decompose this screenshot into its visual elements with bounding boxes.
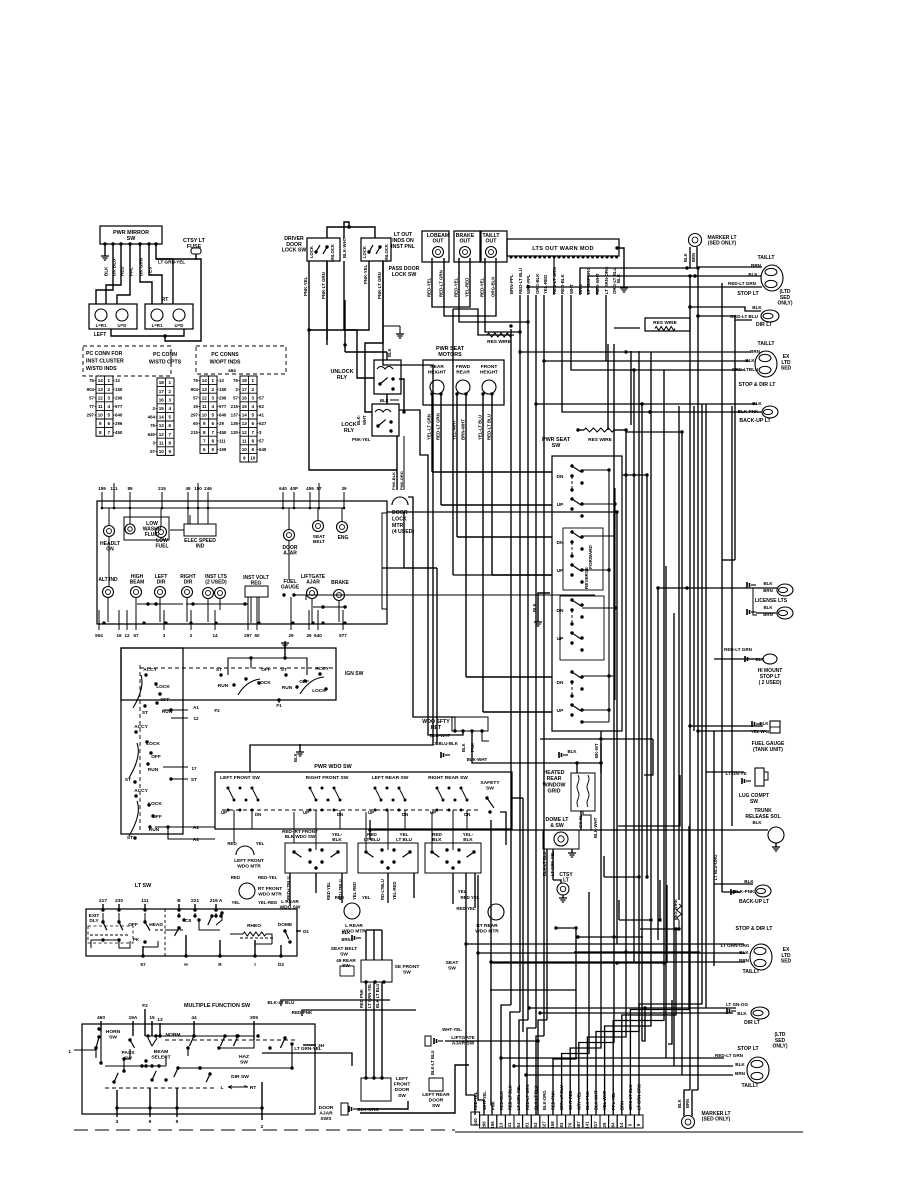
svg-text:296: 296: [115, 421, 123, 426]
svg-text:5: 5: [168, 415, 171, 420]
seat motor 1: [430, 380, 444, 394]
ign contacts 2: [219, 673, 222, 676]
license bracket: [753, 588, 757, 615]
svg-text:DK GRN: DK GRN: [139, 257, 144, 276]
svg-text:6: 6: [107, 421, 110, 426]
svg-text:SW: SW: [109, 1034, 117, 1040]
backup lamp: [762, 406, 778, 418]
sfty conn arrow: [441, 752, 444, 758]
svg-text:8: 8: [251, 438, 254, 443]
svg-text:640: 640: [115, 413, 123, 418]
bottom connector cell 627: [540, 1115, 549, 1128]
svg-text:5: 5: [107, 413, 110, 418]
svg-text:PNK-LT GRN: PNK-LT GRN: [321, 272, 326, 299]
cluster reg wires: [250, 597, 252, 623]
svg-text:10: 10: [242, 447, 248, 452]
weave horizontal 8: [556, 927, 576, 929]
indicator wire YEL-RED: [469, 258, 471, 300]
svg-text:PNK-YEL: PNK-YEL: [303, 276, 308, 296]
svg-text:AJAR: AJAR: [319, 1111, 333, 1117]
ctsy ground: [559, 898, 567, 902]
marker lamp top: [689, 234, 702, 247]
pass lock contact a: [367, 250, 370, 253]
svg-text:INST CLUSTER: INST CLUSTER: [86, 358, 124, 364]
wire BLK to ground: [104, 244, 106, 256]
svg-text:297: 297: [87, 413, 95, 418]
svg-text:DOOR: DOOR: [319, 1105, 334, 1111]
svg-text:3: 3: [251, 395, 254, 400]
seat motor wire YEL-LT BLU: [482, 394, 484, 712]
indicator lamp BRAKE: [460, 247, 471, 258]
himount wire: [682, 651, 724, 653]
svg-text:WDO MTR: WDO MTR: [475, 928, 499, 934]
weave vertical 647: [646, 475, 648, 877]
svg-text:4: 4: [168, 406, 171, 411]
svg-text:RIGHT REAR SW: RIGHT REAR SW: [428, 775, 468, 781]
svg-text:12: 12: [115, 378, 120, 383]
indicator box BRAKE: [454, 231, 481, 262]
left front door pins: [364, 1076, 367, 1079]
svg-text:TAILLT: TAILLT: [757, 255, 775, 261]
pwr wdo ground: [296, 752, 304, 756]
svg-text:SEAT: SEAT: [446, 960, 459, 966]
himount lamp: [763, 654, 777, 664]
svg-text:BLK: BLK: [104, 266, 109, 276]
fuel gauge conn: [752, 721, 755, 727]
wire pass lock down: [365, 261, 383, 412]
central to strip 3: [519, 1020, 528, 1115]
rt front wdo mtr: [239, 883, 255, 899]
svg-text:1: 1: [251, 378, 254, 383]
instrument cluster inner right edge: [382, 513, 387, 609]
svg-text:29: 29: [219, 421, 224, 426]
tail lamp 4: [747, 1057, 769, 1083]
wire relay top: [344, 300, 346, 352]
wire indicator drop 457: [452, 309, 454, 575]
svg-text:WHT: WHT: [569, 284, 574, 294]
svg-text:57: 57: [140, 962, 146, 968]
wdo drop 1: [365, 982, 367, 1078]
svg-text:RED YEL: RED YEL: [461, 895, 480, 900]
wdo dashed line: [222, 809, 478, 811]
brake lamp: [334, 590, 345, 601]
svg-text:904: 904: [95, 633, 103, 638]
svg-text:YEL: YEL: [231, 900, 240, 905]
right bus wire 0: [616, 512, 618, 944]
svg-text:W/STD INDS: W/STD INDS: [86, 366, 117, 372]
svg-text:13: 13: [242, 421, 248, 426]
bottom connector cell 83: [557, 1115, 566, 1128]
wire indicator elbow 2: [444, 300, 496, 316]
svg-text:BRN: BRN: [691, 253, 696, 262]
svg-text:135: 135: [231, 421, 239, 426]
svg-text:9: 9: [203, 421, 206, 426]
seat motor wire YEL-WHT: [456, 394, 458, 537]
svg-text:L=R1: L=R1: [96, 323, 107, 328]
svg-text:RED-LT GRN: RED-LT GRN: [436, 413, 441, 440]
pin 7 of mirror switch: [154, 242, 157, 245]
svg-text:RHEO: RHEO: [247, 923, 261, 929]
svg-text:NORM: NORM: [166, 1032, 181, 1038]
svg-text:HEIGHT: HEIGHT: [480, 369, 498, 375]
svg-text:DOOR: DOOR: [395, 1087, 410, 1093]
weave horizontal 5: [604, 876, 639, 878]
svg-text:9: 9: [211, 447, 214, 452]
svg-text:BLK: BLK: [763, 605, 773, 610]
cluster right tie 2: [382, 567, 437, 569]
svg-text:W/OPT INDS: W/OPT INDS: [210, 359, 241, 365]
indicator box LOBEAM: [422, 231, 449, 262]
svg-text:LT BLU-ORG: LT BLU-ORG: [586, 267, 591, 294]
svg-text:977: 977: [115, 404, 123, 409]
svg-text:10: 10: [202, 413, 208, 418]
svg-text:BRN: BRN: [735, 1071, 746, 1076]
svg-text:83: 83: [559, 1122, 564, 1127]
svg-text:R: R: [218, 962, 222, 968]
svg-text:UP: UP: [430, 810, 436, 815]
bottom connector cell 14: [617, 1115, 626, 1128]
weave horizontal 1: [576, 936, 643, 938]
pc conn inst cluster dashed box: [83, 346, 171, 376]
svg-text:2: 2: [107, 387, 110, 392]
svg-text:459: 459: [306, 486, 314, 491]
svg-text:BLK: BLK: [677, 1099, 682, 1108]
mf sw box: [82, 1024, 315, 1114]
svg-text:IGN SW: IGN SW: [345, 671, 364, 677]
wire PNK-YEL 2 down: [368, 261, 370, 285]
module pin dot 10: [553, 256, 556, 259]
svg-text:246: 246: [204, 486, 212, 491]
svg-text:7: 7: [251, 430, 254, 435]
wdo cluster drops: [233, 810, 235, 843]
weave horizontal 2: [574, 951, 700, 953]
bottom connector cell 53: [531, 1115, 540, 1128]
svg-text:17: 17: [191, 766, 197, 771]
svg-text:ACCY: ACCY: [134, 724, 148, 730]
weave horizontal 6: [619, 919, 651, 921]
l rear wdo mtr: [344, 903, 360, 919]
svg-text:HAZ: HAZ: [239, 1054, 249, 1060]
svg-text:OFF: OFF: [261, 667, 271, 673]
pin 3 of mirror switch: [119, 242, 122, 245]
svg-text:BLK: BLK: [342, 930, 351, 935]
svg-text:464: 464: [228, 368, 236, 373]
svg-text:158: 158: [550, 1121, 555, 1129]
svg-text:SW: SW: [432, 1103, 440, 1109]
svg-text:SAFETY: SAFETY: [480, 780, 500, 786]
wire mirror 3: [117, 244, 130, 304]
module pin dot 2: [514, 256, 517, 259]
svg-text:LEFT: LEFT: [396, 1076, 408, 1082]
ground seat sw: [534, 622, 542, 626]
svg-text:111: 111: [219, 438, 226, 443]
res wire connect: [690, 328, 722, 341]
svg-text:W/STD OPTS: W/STD OPTS: [149, 359, 182, 365]
fan wire 18: [630, 826, 689, 1115]
svg-text:150: 150: [115, 387, 123, 392]
svg-text:2: 2: [168, 389, 171, 394]
bottom connector cell 158: [548, 1115, 557, 1128]
svg-text:9: 9: [99, 421, 102, 426]
module pin dot 18: [591, 256, 594, 259]
svg-text:EXIT: EXIT: [89, 913, 100, 919]
sub contacts 2: [364, 850, 367, 853]
cluster liftgate brake tie: [313, 606, 347, 608]
svg-text:LT SW: LT SW: [135, 883, 152, 889]
svg-text:(SED ONLY): (SED ONLY): [702, 1117, 731, 1123]
dome lamp: [554, 832, 568, 846]
tail lamp 3: [750, 944, 772, 970]
svg-text:6: 6: [203, 447, 206, 452]
lt sw pin drop wires: [102, 913, 104, 922]
res wire zigzag top right: [655, 327, 675, 331]
svg-text:4: 4: [211, 404, 214, 409]
svg-text:DN: DN: [557, 474, 564, 480]
rheo zigzag: [243, 932, 266, 936]
svg-text:BRN-PPL: BRN-PPL: [509, 274, 514, 294]
svg-text:LOCK: LOCK: [392, 516, 407, 522]
wire PNK-LT GRN down: [326, 261, 328, 340]
svg-text:RED-LT GRN: RED-LT GRN: [439, 270, 444, 297]
lt sw contacts: [101, 920, 104, 923]
wdo motor drops: [289, 873, 291, 906]
svg-text:YEL-RED: YEL-RED: [465, 278, 470, 297]
svg-text:(4 USED): (4 USED): [392, 529, 414, 535]
module pin dot 9: [548, 256, 551, 259]
svg-text:YEL-WHT: YEL-WHT: [452, 420, 457, 440]
cluster top wire: [293, 501, 295, 508]
svg-text:53: 53: [533, 1122, 538, 1127]
left front wdo mtr: [236, 846, 254, 855]
lock relay contact: [376, 424, 379, 427]
se front pins: [364, 980, 367, 983]
svg-text:BLK: BLK: [752, 305, 762, 310]
svg-text:BK-WT: BK-WT: [594, 743, 599, 758]
pwr wdo sw box: [215, 772, 512, 829]
license wires: [658, 587, 756, 589]
svg-text:RED-YEL: RED-YEL: [480, 277, 485, 297]
wire lock drop 3: [250, 340, 433, 772]
fan wire 11: [570, 731, 601, 1115]
ign sw left tall box: [121, 648, 183, 834]
wire PNK-YEL down: [308, 261, 310, 327]
svg-text:296: 296: [481, 1121, 486, 1129]
ctsy lamp: [557, 883, 569, 895]
tail wire brn: [698, 266, 762, 268]
svg-text:BLK: BLK: [432, 837, 442, 842]
svg-text:687: 687: [576, 1121, 581, 1129]
svg-text:SW: SW: [240, 1059, 248, 1065]
wire gy-yl: [580, 811, 582, 830]
liftgate sw sym: [425, 1036, 431, 1046]
lt sw box: [86, 909, 297, 956]
svg-text:297: 297: [191, 413, 199, 418]
wdo sfty pins: [453, 729, 456, 732]
svg-text:17: 17: [242, 387, 248, 392]
svg-text:BRN: BRN: [341, 937, 350, 942]
right mirror motor M4: [173, 309, 185, 321]
license lamp 1: [777, 584, 793, 596]
license lamp 2: [777, 607, 793, 619]
wdo cluster 2: [309, 787, 312, 790]
weave vertical 619: [618, 900, 620, 920]
svg-text:DIR LT: DIR LT: [756, 322, 773, 328]
pwr seat motors box: [423, 360, 504, 405]
svg-text:BEAM: BEAM: [154, 1049, 168, 1055]
wire dome drops: [546, 849, 548, 1020]
stop dir 2 wires: [466, 943, 744, 945]
svg-text:76: 76: [233, 378, 238, 383]
liftgate ajar lamp: [307, 588, 318, 599]
ign left dots 2: [134, 794, 137, 797]
bottom connector cell 196: [488, 1115, 497, 1128]
svg-text:HORN: HORN: [106, 1029, 121, 1035]
lt grn-yel wire: [262, 1053, 352, 1066]
weave vertical 604: [603, 856, 605, 877]
fan wire 13: [587, 430, 626, 1115]
pc conns w-opt dashed box: [196, 346, 286, 374]
central to strip 1: [501, 1005, 511, 1115]
svg-text:3: 3: [116, 1119, 119, 1125]
module pin dot 3: [519, 256, 522, 259]
unlock relay contact: [378, 382, 381, 385]
bottom connector cell 31: [505, 1115, 514, 1128]
module pin dot 23: [615, 256, 618, 259]
svg-text:PWR WDO SW: PWR WDO SW: [314, 764, 352, 770]
svg-text:RT REAR: RT REAR: [476, 923, 498, 929]
svg-text:8: 8: [211, 438, 214, 443]
ign internal top wires: [228, 658, 307, 675]
svg-text:RLY: RLY: [337, 375, 348, 381]
fan wire left 2: [491, 820, 492, 1115]
svg-text:ST: ST: [125, 777, 131, 783]
pwr seat sw box: [552, 456, 622, 731]
svg-text:977: 977: [339, 633, 347, 638]
cluster top wire: [207, 501, 209, 508]
svg-text:12: 12: [242, 430, 248, 435]
svg-text:BACK-UP LT: BACK-UP LT: [739, 418, 771, 424]
svg-text:F2: F2: [214, 708, 220, 713]
svg-text:DOME: DOME: [278, 922, 293, 928]
svg-text:PPL: PPL: [129, 267, 134, 276]
wdo to bus tie: [512, 797, 523, 799]
svg-text:29: 29: [288, 633, 294, 638]
svg-text:ACCY: ACCY: [143, 667, 157, 673]
svg-text:RD-LTBLU: RD-LTBLU: [380, 879, 385, 900]
wire mirror right drop: [165, 259, 201, 341]
instrument cluster outer box: [97, 501, 387, 624]
central to strip 2: [510, 1012, 520, 1115]
svg-text:5: 5: [251, 413, 254, 418]
fuse glyph: [191, 248, 201, 254]
inst lts lamp 2: [215, 588, 226, 599]
wire indicator elbow 4: [485, 300, 520, 332]
svg-text:130: 130: [231, 430, 239, 435]
fan wire 15: [605, 352, 651, 1115]
pin 5 of mirror switch: [138, 242, 141, 245]
svg-text:UP: UP: [557, 708, 564, 714]
svg-text:49: 49: [185, 486, 191, 491]
wire pnkltgrn mid: [326, 261, 328, 345]
svg-text:BLK: BLK: [332, 837, 342, 842]
svg-text:627: 627: [542, 1121, 547, 1129]
svg-text:RLY: RLY: [344, 428, 355, 434]
svg-text:RED-YEL: RED-YEL: [454, 277, 459, 297]
left mirror motor M2: [116, 309, 128, 321]
svg-text:SED: SED: [781, 959, 792, 965]
rt rear wdo sub box: [425, 843, 481, 873]
right mirror motor M3: [151, 309, 163, 321]
blk-lt blu wire: [281, 1000, 390, 1006]
pin 2 of mirror switch: [111, 242, 114, 245]
svg-text:L: L: [221, 1085, 224, 1091]
pc conn table 2: [157, 378, 174, 455]
svg-text:YEL-RED: YEL-RED: [258, 900, 277, 905]
tail 4 wires: [501, 1057, 724, 1059]
svg-text:DK BLU: DK BLU: [112, 258, 117, 276]
cluster top wire: [161, 501, 163, 508]
svg-text:YEL RED: YEL RED: [352, 882, 357, 900]
svg-text:13: 13: [159, 423, 165, 428]
svg-text:UNLOCK: UNLOCK: [384, 244, 389, 262]
central bus wire 0: [510, 329, 512, 1005]
svg-text:A1: A1: [193, 705, 199, 710]
lt sw internal wires: [91, 940, 103, 948]
svg-text:2: 2: [261, 1124, 264, 1130]
svg-text:15: 15: [242, 404, 248, 409]
bottom dashed rule: [74, 1129, 455, 1131]
svg-text:BACK-UP LT: BACK-UP LT: [739, 899, 769, 905]
mf bottom dots: [115, 1106, 118, 1109]
svg-text:( 2 USED): ( 2 USED): [759, 680, 782, 686]
mf lower contacts: [122, 1057, 125, 1060]
pc conn table 4: [240, 376, 257, 462]
svg-text:BLK: BLK: [293, 753, 298, 762]
indicator wire RED-YEL: [458, 258, 460, 300]
svg-text:(2 USED): (2 USED): [205, 580, 227, 586]
junction stop dir: [624, 350, 627, 353]
svg-text:RED YEL: RED YEL: [326, 881, 331, 900]
bottom marker lamp: [682, 1116, 695, 1129]
alt ind lamp: [103, 587, 114, 598]
svg-text:RES WIRE: RES WIRE: [653, 320, 678, 326]
svg-text:C8: C8: [185, 918, 191, 924]
indicator box TAILLT: [480, 231, 507, 262]
svg-text:RED-YEL: RED-YEL: [427, 277, 432, 297]
right mirror assembly box: [145, 304, 193, 329]
license conn 1: [747, 582, 750, 588]
svg-text:9: 9: [168, 449, 171, 454]
bottom connector cell 76: [566, 1115, 575, 1128]
svg-text:F2: F2: [142, 1003, 148, 1009]
bottom connector cell 296: [480, 1115, 489, 1128]
svg-text:SWS: SWS: [320, 1116, 332, 1122]
svg-text:OFF: OFF: [128, 922, 138, 928]
tail wire blk: [690, 275, 761, 277]
svg-text:904: 904: [191, 387, 199, 392]
wire heated grid feed: [576, 763, 578, 773]
module pin dot 1: [510, 256, 513, 259]
svg-text:FRONT: FRONT: [481, 364, 498, 370]
svg-text:76: 76: [150, 423, 155, 428]
svg-text:RIGHT FRONT SW: RIGHT FRONT SW: [306, 775, 349, 781]
svg-text:PNK-ORG: PNK-ORG: [399, 471, 404, 490]
module pin dot 11: [558, 256, 561, 259]
module pin dot 20: [601, 256, 604, 259]
svg-text:AJAR: AJAR: [306, 580, 320, 586]
svg-text:BRN: BRN: [578, 284, 583, 294]
svg-text:SW: SW: [403, 969, 411, 975]
